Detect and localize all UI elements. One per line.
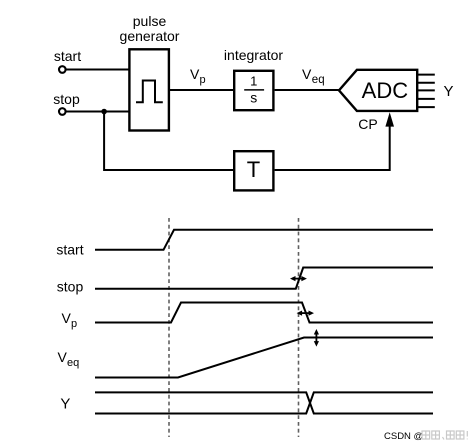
svg-text:stop: stop: [53, 91, 80, 107]
wire T to ADC clock with arrow: [275, 112, 394, 170]
svg-text:1: 1: [250, 73, 257, 88]
label Veq node: [302, 66, 325, 86]
junction on stop wire: [101, 109, 107, 115]
wire stop junction down to T: [104, 112, 233, 171]
wire Veq: integrator to ADC: [275, 89, 340, 91]
jitter arrow on Vp falling edge: [297, 311, 314, 316]
dashed timing marker line 1: [168, 218, 170, 437]
svg-text:p: p: [200, 74, 206, 86]
block integrator 1/s: [234, 71, 273, 110]
svg-text:p: p: [71, 318, 77, 330]
block ADC U2: [339, 70, 417, 111]
terminal start: [59, 66, 66, 73]
waveform stop: [95, 268, 433, 289]
svg-text:s: s: [250, 90, 257, 106]
label Vp node: [190, 66, 206, 86]
waveform Y bus upper: [95, 392, 433, 413]
svg-text:CP: CP: [358, 116, 377, 132]
watermark: [384, 431, 467, 442]
svg-text:V: V: [190, 66, 200, 82]
svg-text:stop: stop: [57, 278, 84, 294]
dashed timing marker line 2: [298, 218, 300, 437]
wire stop to pulse generator: [67, 111, 130, 113]
svg-text:generator: generator: [120, 28, 180, 44]
svg-text:V: V: [302, 66, 312, 82]
wire Vp: pulse generator to integrator: [170, 89, 234, 91]
svg-text:start: start: [56, 242, 83, 258]
terminal stop: [59, 108, 66, 115]
block pulse generator U1: [129, 49, 169, 130]
waveform Y bus lower: [95, 392, 433, 413]
svg-text:Y: Y: [60, 395, 70, 412]
svg-text:V: V: [62, 310, 72, 326]
waveform Veq ramp: [95, 338, 433, 378]
svg-text:eq: eq: [67, 357, 79, 369]
svg-text:ADC: ADC: [362, 78, 409, 103]
wire start to pulse generator: [67, 69, 130, 71]
ADC output bus ticks: [418, 75, 435, 108]
jitter arrow on stop edge: [290, 276, 307, 281]
svg-text:eq: eq: [312, 74, 325, 86]
label Vp (timing): [62, 310, 78, 330]
block T: [234, 151, 273, 190]
svg-text:Y: Y: [443, 83, 453, 100]
pulse symbol inside pulse generator: [136, 81, 163, 103]
svg-text:T: T: [247, 157, 260, 182]
svg-text:start: start: [54, 48, 81, 64]
uncertainty arrow on Veq level: [314, 329, 319, 347]
label pulse generator: [120, 13, 180, 44]
waveform start: [95, 230, 433, 250]
svg-text:pulse: pulse: [133, 13, 167, 29]
waveform Vp: [95, 303, 433, 323]
svg-text:integrator: integrator: [224, 47, 283, 63]
label Veq (timing): [58, 349, 80, 369]
svg-text:CSDN @: CSDN @: [384, 431, 423, 442]
svg-text:V: V: [58, 349, 68, 365]
